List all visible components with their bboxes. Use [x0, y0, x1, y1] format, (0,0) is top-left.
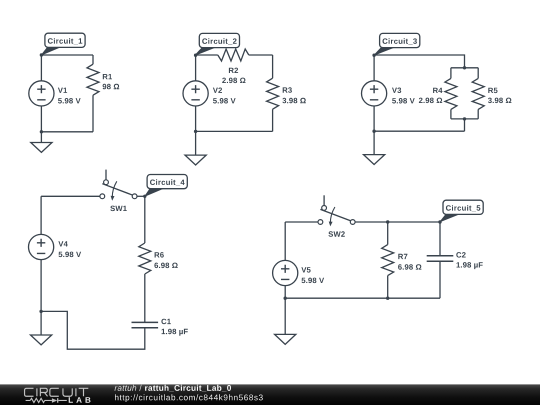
logo resistor squiggle	[30, 398, 45, 402]
resistor R2	[218, 49, 249, 61]
wire left-lower C5	[284, 286, 286, 299]
V3 value label	[392, 98, 415, 104]
logo wire mid	[45, 399, 52, 401]
R7 value label	[398, 264, 421, 270]
node parallel-bottom C3	[463, 117, 466, 120]
R2 name label	[229, 68, 238, 73]
logo letter C	[25, 388, 34, 396]
C2 value label	[457, 262, 483, 269]
logo letter R	[40, 388, 47, 396]
label Circuit_4	[145, 188, 164, 196]
wire bottom C1	[41, 131, 93, 133]
wire top-left C2	[196, 54, 218, 56]
wire top-left C5	[285, 221, 318, 223]
wire left-lower C3	[373, 106, 375, 131]
logo letter T	[79, 388, 89, 396]
ground C3	[373, 131, 375, 154]
node switch C4	[143, 195, 146, 198]
wire top C3	[374, 55, 464, 68]
V3 name label	[392, 88, 401, 94]
wire right-lower C2	[272, 109, 274, 131]
R4 name label	[433, 88, 442, 93]
V5 value label	[302, 278, 325, 284]
C1 value label	[162, 329, 188, 336]
logo letter I	[36, 388, 38, 396]
logo diode triangle	[52, 398, 57, 403]
V2 name label	[213, 88, 222, 93]
wire switch-to-right C5	[355, 221, 440, 223]
wire top C1	[41, 54, 93, 56]
R3 name label	[283, 87, 292, 93]
C2 name label	[456, 252, 465, 258]
node parallel-top C3	[463, 66, 466, 69]
capacitor C1	[132, 322, 159, 327]
wire junction-down C3	[464, 119, 466, 131]
node bottom-left C2	[194, 130, 197, 133]
resistor R1	[87, 64, 99, 95]
wire bottom-route C4	[41, 311, 145, 349]
wire right-upper C2	[272, 55, 274, 78]
R1 value label	[103, 84, 120, 90]
V1 name label	[58, 88, 67, 93]
logo text LAB	[69, 397, 91, 403]
wire right-lower C1	[92, 95, 94, 132]
ground C1	[40, 132, 42, 143]
R6 value label	[154, 263, 177, 269]
capacitor C2	[427, 256, 454, 261]
voltage source V4	[28, 234, 53, 259]
wire left-upper C4	[40, 196, 42, 234]
node C2-top C5	[438, 220, 441, 223]
wire bottom C5	[285, 297, 440, 299]
wire bottom C3	[374, 130, 464, 132]
wire C2-branch-upper C5	[439, 222, 441, 256]
R6 name label	[155, 252, 164, 258]
node bottom-left C3	[372, 130, 375, 133]
wire left-lower C4	[40, 260, 42, 312]
wire top-right C2	[249, 54, 273, 56]
resistor R6	[139, 243, 151, 274]
wire C2-branch-lower C5	[439, 261, 441, 298]
footer title name	[145, 385, 231, 392]
logo letter U	[63, 388, 72, 396]
resistor R4	[445, 78, 457, 109]
wire parallel-top C3	[451, 68, 478, 79]
ground C5	[284, 298, 286, 334]
V4 value label	[59, 252, 82, 258]
ground C4	[40, 311, 42, 335]
wire top C4	[41, 195, 100, 197]
wire R6-to-C1cap C4	[144, 274, 146, 322]
switch SW2	[323, 195, 325, 205]
node top-left C2	[194, 54, 197, 57]
voltage source V3	[362, 81, 387, 106]
V2 value label	[213, 98, 236, 104]
wire right-upper C4	[144, 196, 146, 243]
resistor R3	[267, 78, 279, 109]
node R7-bottom C5	[386, 297, 389, 300]
wire right-upper C1	[92, 55, 94, 64]
wire left-lower C2	[195, 106, 197, 131]
R1 name label	[103, 74, 112, 79]
wire left-upper C5	[284, 222, 286, 260]
voltage source V2	[183, 81, 208, 106]
node bottom-left C5	[284, 297, 287, 300]
footer url	[115, 394, 263, 402]
V4 name label	[58, 241, 67, 246]
node top-left C1	[40, 53, 43, 56]
wire parallel-bottom C3	[451, 109, 478, 119]
wire left-upper C2	[195, 55, 197, 81]
node bottom-left C4	[39, 310, 42, 313]
wire R7-branch-upper C5	[387, 222, 389, 245]
logo wire right	[58, 399, 66, 401]
ground C2	[195, 131, 197, 155]
V1 value label	[58, 98, 81, 104]
voltage source V5	[273, 260, 298, 285]
node bottom-left C1	[40, 130, 43, 133]
wire R7-branch-lower C5	[387, 276, 389, 299]
label Circuit_2	[195, 47, 216, 55]
footer title separator	[139, 385, 141, 391]
node top-left C3	[372, 54, 375, 57]
R3 value label	[282, 98, 305, 104]
R2 value label	[222, 78, 245, 84]
logo diode cathode bar	[57, 398, 59, 403]
label Circuit_1	[41, 47, 61, 55]
logo letter I2	[75, 388, 77, 396]
footer title username	[115, 385, 137, 391]
resistor R7	[382, 245, 394, 276]
switch SW1	[105, 170, 107, 180]
node R7-top C5	[386, 220, 389, 223]
wire left-lower C1	[40, 106, 42, 132]
label Circuit_3	[374, 47, 395, 55]
logo letter C2	[50, 388, 59, 396]
wire left-upper C1	[40, 55, 42, 81]
resistor R5	[472, 78, 484, 109]
R5 name label	[488, 88, 497, 93]
wire left-upper C3	[373, 55, 375, 81]
R7 name label	[398, 254, 407, 259]
C1 name label	[161, 319, 170, 325]
logo wire left	[26, 399, 31, 401]
wire bottom C2	[196, 130, 273, 132]
R4 value label	[419, 98, 442, 104]
voltage source V1	[29, 81, 54, 106]
wire switch-to-node C4	[137, 195, 145, 197]
R5 value label	[488, 98, 511, 104]
label Circuit_5	[440, 214, 460, 222]
V5 name label	[301, 267, 310, 272]
